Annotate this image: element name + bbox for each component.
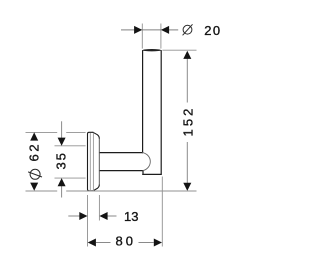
arm: horizontal tube	[100, 153, 151, 171]
dim 80: right arrowhead (pointing right)	[154, 239, 162, 247]
dim d20: left arrowhead	[134, 26, 142, 34]
dim 80: left arrowhead (pointing left)	[88, 239, 96, 247]
plate inner thin line 1	[89, 133, 91, 190]
dim 13: dimension line tails	[68, 215, 116, 217]
dim d20: right arrowhead	[161, 26, 169, 34]
plate front face edge	[98, 138, 100, 184]
rod top cap ellipse	[143, 49, 161, 51]
wall plate (escutcheon) profile outline	[88, 132, 100, 191]
svg-text:62: 62	[27, 142, 42, 162]
svg-text:35: 35	[54, 151, 69, 169]
dim d62: diameter symbol (rotated glyph)	[28, 169, 42, 179]
svg-text:20: 20	[204, 23, 221, 38]
dim d20: diameter symbol	[183, 24, 193, 35]
baseline extension line (bottom of plate, shared)	[26, 190, 197, 192]
dim 35: top arrowhead (pointing down)	[58, 138, 66, 146]
plate inner thin line 2	[92, 133, 94, 191]
svg-text:13: 13	[124, 209, 138, 224]
svg-text:152: 152	[180, 106, 195, 137]
dim 35: extension lines	[55, 146, 86, 178]
dim 80: right extension line	[161, 177, 163, 247]
dim 152: extension line top	[162, 49, 196, 51]
dim 13: left arrowhead (pointing right)	[79, 212, 87, 220]
dim d20: dimension line	[121, 29, 178, 31]
dim d20: extension lines	[142, 24, 161, 49]
dim d62: top arrowhead	[30, 132, 38, 140]
dim 152: top arrowhead	[183, 51, 191, 59]
dim 13: extension lines	[88, 195, 100, 247]
dim 35: dimension line tails	[61, 121, 63, 197]
dim d62: bottom arrowhead	[30, 183, 38, 191]
rod: vertical tube outline	[143, 51, 162, 175]
dim 13: right arrowhead (pointing left)	[99, 212, 107, 220]
dim 80: dimension line	[96, 242, 154, 244]
dim 152: dimension line	[186, 58, 188, 183]
dim 35: bottom arrowhead (pointing up)	[58, 178, 66, 186]
dim d62: extension line top	[26, 131, 86, 133]
svg-text:80: 80	[116, 233, 136, 248]
arm rounded end dome	[143, 153, 151, 171]
dim 152: bottom arrowhead	[183, 183, 191, 191]
